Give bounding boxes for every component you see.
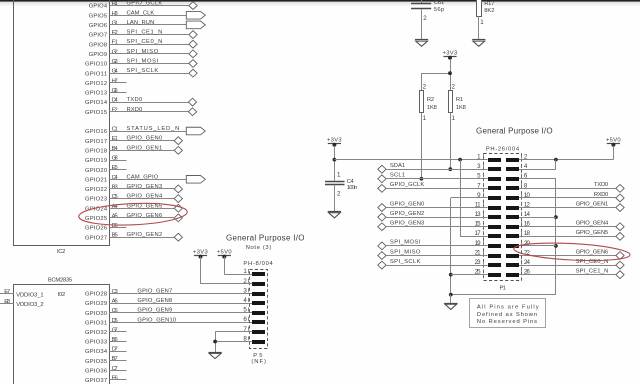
svg-text:GPIO_GEN6: GPIO_GEN6 <box>576 249 609 255</box>
svg-text:R1: R1 <box>456 97 464 103</box>
IC2 pin E5 GPIO20 stub (no connect) <box>85 165 127 174</box>
wire +3V3 riser to P1 pin 17 <box>460 160 488 237</box>
wire R2 to SCL1 <box>421 113 423 179</box>
svg-text:GPIO18: GPIO18 <box>85 148 107 154</box>
svg-text:GPIO31: GPIO31 <box>85 320 107 326</box>
ground (C4) <box>328 212 341 218</box>
IC2 pin C7 GPIO36 stub (no connect) <box>85 366 127 375</box>
junction P5 ground <box>213 340 217 344</box>
net GPIO_GEN5 wire from P1 pin 18 and flag <box>519 230 624 240</box>
svg-text:8K2: 8K2 <box>484 8 495 14</box>
IC2 pin C5 GPIO23 wire, net GPIO_GEN4, flag <box>85 194 182 203</box>
junction ground/pin25 <box>449 273 453 277</box>
IC2 pin B3 GPIO22 wire, net GPIO_GEN3, flag <box>85 184 182 193</box>
wire +3V3 to P5 pin 2 <box>201 257 253 284</box>
IC2 pin D6 GPIO26 stub (no connect) <box>85 223 127 232</box>
svg-text:GPIO21: GPIO21 <box>85 177 107 183</box>
junction +3V3/pin17 riser <box>458 158 462 162</box>
svg-text:RXD0: RXD0 <box>127 107 143 113</box>
IC2 pin D5 GPIO31 wire, net GPIO_GEN10, to P5 <box>85 317 252 326</box>
svg-text:GPIO10: GPIO10 <box>85 62 107 68</box>
svg-text:STATUS_LED_N: STATUS_LED_N <box>127 126 180 132</box>
svg-text:SPI_SCLK: SPI_SCLK <box>127 68 159 74</box>
ground (R17) <box>472 40 485 47</box>
junction +3V3/R branch <box>448 71 452 75</box>
svg-text:B3: B3 <box>112 184 118 190</box>
net SPI_MOSI flag and wire to P1 pin 19 <box>378 240 488 250</box>
svg-text:CAM_GPIO: CAM_GPIO <box>127 174 159 180</box>
wire P1 pin 14 to ground rail <box>519 217 556 219</box>
svg-text:6: 6 <box>243 316 247 323</box>
svg-text:TXD0: TXD0 <box>127 97 143 103</box>
svg-text:F2: F2 <box>112 30 118 36</box>
wire P1 pin 9 to ground rail (left) <box>451 198 488 295</box>
svg-text:IC2: IC2 <box>57 249 66 255</box>
svg-text:GPIO36: GPIO36 <box>85 368 107 374</box>
IC2 pin E7 VDDIO3_1 stub <box>0 289 14 295</box>
svg-text:+5V0: +5V0 <box>606 138 621 144</box>
svg-text:GPIO17: GPIO17 <box>85 139 107 145</box>
svg-text:PH-26/004: PH-26/004 <box>486 147 520 153</box>
IC2 pin E1 GPIO17 wire, net GPIO_GEN0, flag <box>85 136 182 145</box>
svg-text:GPIO37: GPIO37 <box>85 378 107 384</box>
svg-text:GPIO_GEN10: GPIO_GEN10 <box>137 317 176 323</box>
svg-text:GPIO_GEN2: GPIO_GEN2 <box>390 211 425 217</box>
svg-text:24: 24 <box>524 259 531 266</box>
svg-text:GPIO_GEN0: GPIO_GEN0 <box>390 201 425 207</box>
svg-text:GPIO33: GPIO33 <box>85 340 107 346</box>
svg-text:GPIO8: GPIO8 <box>89 42 108 48</box>
svg-text:GPIO11: GPIO11 <box>85 71 107 77</box>
wire P5 pin 7 to ground <box>215 332 252 353</box>
IC2 pin C6 GPIO30 wire, net GPIO_GEN9, to P5 <box>85 308 252 317</box>
svg-text:+3V3: +3V3 <box>327 138 342 144</box>
svg-text:Note (3): Note (3) <box>246 245 272 251</box>
power +5V0 (P1 area) <box>606 138 621 147</box>
svg-text:SPI_MOSI: SPI_MOSI <box>127 59 159 65</box>
svg-text:VDDIO3_2: VDDIO3_2 <box>16 302 44 308</box>
IC2 pin B7 GPIO35 stub (no connect) <box>85 356 127 365</box>
svg-text:SDA1: SDA1 <box>390 163 405 169</box>
svg-text:PH-8/004: PH-8/004 <box>243 261 273 267</box>
svg-text:1: 1 <box>477 154 481 161</box>
svg-text:CAM_CLK: CAM_CLK <box>127 10 155 16</box>
svg-text:GPIO_GEN8: GPIO_GEN8 <box>137 298 172 304</box>
svg-text:GPIO13: GPIO13 <box>85 91 107 97</box>
power +3V3 (pull-ups) <box>443 50 458 59</box>
IC2 pin B6 GPIO33 stub (no connect) <box>85 337 127 346</box>
IC IC2 BCM2835 body (top section) <box>14 0 110 255</box>
wire P5 pin 8 to ground <box>215 341 252 343</box>
IC2 pin D4 GPIO14 wire, net TXD0, flag <box>85 97 197 106</box>
wire R1 to SDA1 <box>450 113 452 170</box>
IC2 pin F2 GPIO7 wire, net SPI_CE1_N, flag <box>89 30 197 39</box>
wire +3V3 to P1 pin 1 <box>334 159 487 161</box>
IC2 pin H3 GPIO5 wire, net CAM_CLK, flag <box>89 10 206 19</box>
svg-text:3: 3 <box>243 287 247 294</box>
svg-text:GPIO25: GPIO25 <box>85 216 107 222</box>
svg-text:GPIO22: GPIO22 <box>85 187 107 193</box>
svg-text:SPI_MISO: SPI_MISO <box>127 49 159 55</box>
IC2 pin H7 GPIO12 stub (no connect) <box>85 78 127 87</box>
wire ground rail bottom <box>451 294 556 296</box>
svg-text:C3: C3 <box>112 289 118 295</box>
svg-text:GPIO30: GPIO30 <box>85 311 107 317</box>
svg-text:C6: C6 <box>112 308 118 314</box>
svg-text:56p: 56p <box>434 7 445 13</box>
svg-text:2: 2 <box>423 15 427 22</box>
svg-text:G3: G3 <box>112 59 118 65</box>
svg-text:General Purpose I/O: General Purpose I/O <box>476 127 553 136</box>
svg-text:+3V3: +3V3 <box>443 50 458 56</box>
annotation red ellipse around P1 pin 22 GPIO_GEN6 <box>513 241 630 263</box>
svg-text:GPIO_GEN7: GPIO_GEN7 <box>137 289 172 295</box>
net SPI_SCLK flag and wire to P1 pin 23 <box>378 259 488 269</box>
junction ground/pin20 <box>554 244 558 248</box>
IC2 pin C4 GPIO21 wire, net CAM_GPIO, flag <box>85 174 205 183</box>
svg-text:GPIO_GEN1: GPIO_GEN1 <box>576 201 609 207</box>
svg-text:R2: R2 <box>427 97 435 103</box>
svg-text:GPIO35: GPIO35 <box>85 359 107 365</box>
svg-text:GPIO26: GPIO26 <box>85 226 107 232</box>
ground (P1) <box>444 304 457 310</box>
junction R1/SDA1 <box>448 167 452 171</box>
svg-text:G1: G1 <box>112 20 118 26</box>
svg-text:+5V0: +5V0 <box>217 249 232 255</box>
svg-text:GPIO23: GPIO23 <box>85 197 107 203</box>
svg-text:GPIO7: GPIO7 <box>89 33 108 39</box>
IC2 pin G3 GPIO10 wire, net SPI_MOSI, flag <box>85 59 197 68</box>
resistor R17 8K2 <box>477 0 495 40</box>
connector P5 PH-8/004 body <box>243 261 273 365</box>
svg-text:GPIO24: GPIO24 <box>85 206 108 212</box>
svg-text:D6: D6 <box>112 223 118 229</box>
IC2 pin H1 GPIO4 wire, net GPIO_GCLK, flag <box>89 1 197 10</box>
wire +5V0 to P5 pin 1 <box>224 257 252 275</box>
svg-text:GPIO27: GPIO27 <box>85 235 107 241</box>
svg-text:2: 2 <box>337 190 341 197</box>
svg-text:H7: H7 <box>112 78 118 84</box>
svg-text:14: 14 <box>524 211 531 218</box>
svg-text:All Pins are Fully: All Pins are Fully <box>477 305 539 311</box>
svg-text:GPIO_GEN1: GPIO_GEN1 <box>127 145 163 151</box>
IC2 pin D7 GPIO34 stub (no connect) <box>85 347 127 356</box>
IC2 pin G7 GPIO32 stub (no connect) <box>85 327 127 336</box>
svg-text:5: 5 <box>243 307 247 314</box>
power +3V3 (C4 area) <box>327 138 342 147</box>
net GPIO_GCLK flag and wire to P1 pin 7 <box>378 182 488 192</box>
wire P1 pin 25 to ground rail <box>451 274 488 276</box>
svg-text:1: 1 <box>337 172 341 179</box>
svg-text:GPIO15: GPIO15 <box>85 110 107 116</box>
svg-text:GPIO29: GPIO29 <box>85 301 107 307</box>
svg-text:GPIO16: GPIO16 <box>85 129 107 135</box>
svg-text:A5: A5 <box>112 213 118 219</box>
net SDA1 flag and wire to P1 pin 3 <box>378 163 488 173</box>
net GPIO_GEN1 wire from P1 pin 12 and flag <box>519 201 624 211</box>
net SPI_CE1_N wire from P1 pin 26 and flag <box>519 268 624 278</box>
svg-text:GPIO_GEN6: GPIO_GEN6 <box>127 213 163 219</box>
net TXD0 wire from P1 pin 8 and flag <box>519 182 624 192</box>
svg-text:GPIO_GEN0: GPIO_GEN0 <box>127 136 163 142</box>
svg-text:GPIO28: GPIO28 <box>85 292 107 298</box>
svg-text:Defined as Shown: Defined as Shown <box>477 312 537 318</box>
svg-text:+3V3: +3V3 <box>193 249 208 255</box>
IC2 pin C3 GPIO28 wire, net GPIO_GEN7, to P5 <box>85 289 252 298</box>
IC2 pin F1 GPIO8 wire, net SPI_CE0_N, flag <box>89 39 197 48</box>
svg-text:SPI_CE1_N: SPI_CE1_N <box>127 30 163 36</box>
section title General Purpose I/O (P5) <box>226 233 305 251</box>
svg-text:100n: 100n <box>347 185 358 191</box>
svg-text:General Purpose I/O: General Purpose I/O <box>226 233 305 242</box>
svg-text:SPI_MISO: SPI_MISO <box>390 249 421 255</box>
svg-text:SCL1: SCL1 <box>390 173 405 179</box>
svg-text:2: 2 <box>452 83 456 90</box>
ground (C61) <box>415 40 428 47</box>
net SPI_MISO flag and wire to P1 pin 21 <box>378 249 488 259</box>
svg-text:G7: G7 <box>112 327 118 333</box>
net SPI_CE0_N wire from P1 pin 24 and flag <box>519 259 624 269</box>
svg-text:C5: C5 <box>112 194 118 200</box>
power +5V0 (P5 area) <box>217 249 232 258</box>
wire P1 pin 6 to ground rail <box>519 179 556 295</box>
svg-text:1K8: 1K8 <box>456 105 466 111</box>
svg-text:GPIO32: GPIO32 <box>85 330 107 336</box>
svg-text:B7: B7 <box>112 356 118 362</box>
IC2 pin A6 GPIO29 wire, net GPIO_GEN8, to P5 <box>85 298 252 307</box>
svg-text:H1: H1 <box>112 1 118 7</box>
svg-text:GPIO34: GPIO34 <box>85 349 108 355</box>
power +3V3 (P5 area) <box>193 249 208 258</box>
ground (P5) <box>209 353 222 359</box>
svg-text:GPIO_GEN2: GPIO_GEN2 <box>127 232 163 238</box>
svg-text:E6: E6 <box>112 375 118 381</box>
svg-text:E1: E1 <box>112 136 118 142</box>
junction +3V3/P1 pin1 branch <box>333 158 337 162</box>
svg-text:4: 4 <box>243 297 247 304</box>
IC IC2 BCM2835 body (bottom section) <box>14 277 110 384</box>
svg-text:BCM2835: BCM2835 <box>48 277 73 283</box>
svg-text:R17: R17 <box>484 1 495 7</box>
svg-text:SPI_CE1_N: SPI_CE1_N <box>576 268 609 274</box>
svg-text:E5: E5 <box>112 165 118 171</box>
IC2 pin B5 GPIO27 wire, net GPIO_GEN2, flag <box>85 232 182 241</box>
wire P1 pin 20 to ground rail <box>519 245 556 247</box>
svg-text:SPI_SCLK: SPI_SCLK <box>390 259 421 265</box>
svg-text:GPIO5: GPIO5 <box>89 13 108 19</box>
svg-text:C4: C4 <box>347 179 355 185</box>
svg-text:23: 23 <box>475 259 482 266</box>
IC2 pin G8 GPIO19 stub (no connect) <box>85 156 127 165</box>
note box: All Pins are Fully Defined as Shown No Reserved Pins <box>470 299 546 328</box>
net SCL1 flag and wire to P1 pin 5 <box>378 173 488 183</box>
net RXD0 wire from P1 pin 10 and flag <box>519 192 624 202</box>
IC2 pin E8 VDDIO3_2 stub <box>0 299 14 305</box>
capacitor C61 56p <box>411 0 444 40</box>
svg-text:VDDIO3_1: VDDIO3_1 <box>16 292 44 298</box>
svg-text:GPIO_GEN3: GPIO_GEN3 <box>127 184 163 190</box>
svg-text:2: 2 <box>423 83 427 90</box>
svg-text:GPIO14: GPIO14 <box>85 100 108 106</box>
IC2 pin G2 GPIO9 wire, net SPI_MISO, flag <box>89 49 197 58</box>
svg-text:GPIO12: GPIO12 <box>85 81 107 87</box>
IC2 pin E6 GPIO37 stub (no connect) <box>85 375 127 384</box>
svg-text:TXD0: TXD0 <box>594 182 609 188</box>
net GPIO_GEN0 flag and wire to P1 pin 11 <box>378 201 488 211</box>
svg-text:1K8: 1K8 <box>427 105 437 111</box>
svg-text:17: 17 <box>475 230 482 237</box>
svg-text:GPIO19: GPIO19 <box>85 158 107 164</box>
svg-text:SPI_CE0_N: SPI_CE0_N <box>127 39 163 45</box>
svg-text:(NF): (NF) <box>251 359 266 365</box>
IC2 pin G4 GPIO11 wire, net SPI_SCLK, flag <box>85 68 197 77</box>
svg-text:I02: I02 <box>58 292 66 298</box>
svg-text:GPIO_GEN3: GPIO_GEN3 <box>390 221 425 227</box>
svg-text:GPIO4: GPIO4 <box>89 4 108 10</box>
svg-text:GPIO6: GPIO6 <box>89 23 108 29</box>
svg-text:E2: E2 <box>112 107 118 113</box>
svg-text:1: 1 <box>452 115 456 122</box>
junction +5V0/pin4 riser <box>554 158 558 162</box>
svg-text:GPIO_GCLK: GPIO_GCLK <box>127 1 163 7</box>
svg-text:G5: G5 <box>112 88 118 94</box>
resistor R2 1K8 <box>420 83 438 122</box>
svg-text:1: 1 <box>423 115 427 122</box>
net GPIO_GEN6 wire from P1 pin 22 and flag <box>519 249 624 259</box>
svg-text:P1: P1 <box>500 286 507 292</box>
svg-text:E7: E7 <box>4 289 10 295</box>
junction ground rail corner <box>449 293 453 297</box>
wire +3V3 down to C4 <box>334 146 336 181</box>
IC2 pin G5 GPIO13 stub (no connect) <box>85 88 127 97</box>
junction ground/pin14 <box>554 215 558 219</box>
IC2 pin A5 GPIO25 wire, net GPIO_GEN6, flag <box>85 213 182 222</box>
junction R2/SCL1 <box>420 177 424 181</box>
svg-text:No Reserved Pins: No Reserved Pins <box>477 319 537 325</box>
connector P1 PH-26/004 body <box>475 147 531 292</box>
section title General Purpose I/O (P1) <box>476 127 553 136</box>
svg-text:GPIO_GCLK: GPIO_GCLK <box>390 182 425 188</box>
svg-text:GPIO_GEN9: GPIO_GEN9 <box>137 308 172 314</box>
net GPIO_GEN4 wire from P1 pin 16 and flag <box>519 221 624 231</box>
svg-text:GPIO_GEN4: GPIO_GEN4 <box>576 221 609 227</box>
svg-text:GPIO9: GPIO9 <box>89 52 108 58</box>
wire +5V0 riser to P1 pin 4 <box>519 160 556 170</box>
svg-text:G2: G2 <box>112 49 118 55</box>
svg-text:C61: C61 <box>434 0 445 6</box>
capacitor C4 100n <box>325 172 358 212</box>
svg-text:SPI_MOSI: SPI_MOSI <box>390 240 421 246</box>
net GPIO_GEN2 flag and wire to P1 pin 13 <box>378 211 488 221</box>
IC2 pin B4 GPIO18 wire, net GPIO_GEN1, flag <box>85 145 182 154</box>
IC2 pin E2 GPIO15 wire, net RXD0, flag <box>85 107 197 116</box>
svg-text:B6: B6 <box>112 337 118 343</box>
svg-text:GPIO20: GPIO20 <box>85 168 107 174</box>
resistor R1 1K8 <box>449 83 467 122</box>
window top edge shadow <box>0 0 640 6</box>
svg-text:GPIO_GEN4: GPIO_GEN4 <box>127 194 164 200</box>
svg-text:13: 13 <box>475 211 482 218</box>
wire ground rail to ground symbol <box>450 295 452 303</box>
wire +3V3 to R1/R2 <box>421 59 450 90</box>
IC2 pin C1 GPIO16 wire, net STATUS_LED_N, flag <box>85 126 205 135</box>
svg-text:GPIO_GEN5: GPIO_GEN5 <box>576 230 609 236</box>
wire +5V0 to P1 pin 2 <box>519 146 614 160</box>
svg-text:RXD0: RXD0 <box>594 192 609 198</box>
annotation red ellipse around GPIO25 GPIO_GEN6 <box>78 201 187 227</box>
svg-text:LAN_RUN: LAN_RUN <box>127 20 155 26</box>
svg-text:1: 1 <box>480 19 484 26</box>
IC2 pin G1 GPIO6 wire, net LAN_RUN, flag <box>89 20 206 29</box>
IC2 pin A4 GPIO24 wire, net GPIO_GEN5, flag <box>85 203 182 212</box>
net GPIO_GEN3 flag and wire to P1 pin 15 <box>378 221 488 231</box>
